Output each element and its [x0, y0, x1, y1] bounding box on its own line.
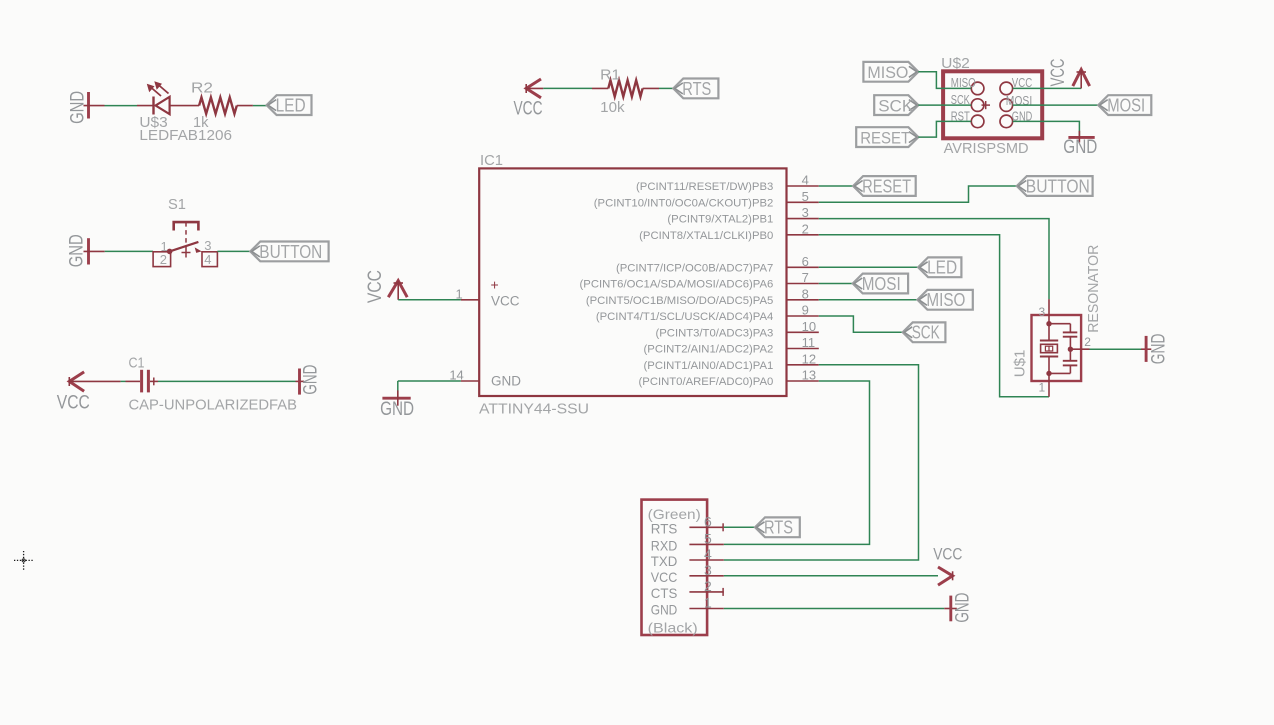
wire C1 to GND	[158, 380, 296, 382]
svg-text:GND: GND	[67, 91, 88, 124]
switch S1 actuator bracket	[174, 222, 199, 230]
wire resonator pin 2 to GND	[1090, 348, 1142, 350]
wire VCC to C1	[121, 380, 126, 382]
net flag RESET	[853, 176, 916, 196]
junction dot resonator top	[1046, 321, 1051, 326]
svg-text:TXD: TXD	[651, 553, 678, 569]
LED U$3 symbol	[147, 81, 170, 114]
junction dot resonator bottom	[1046, 371, 1051, 376]
svg-text:U$1: U$1	[1011, 350, 1028, 378]
svg-text:(PCINT4/T1/SCL/USCK/ADC4)PA4: (PCINT4/T1/SCL/USCK/ADC4)PA4	[596, 311, 773, 323]
ISP pad SCK	[971, 99, 984, 112]
svg-text:SCK: SCK	[878, 96, 914, 115]
svg-text:3: 3	[1039, 305, 1046, 319]
FTDI pin 2 (CTS) lead	[689, 591, 723, 593]
svg-text:3: 3	[704, 562, 712, 578]
net flag MOSI (ISP)	[1098, 95, 1151, 115]
switch S1 actuator lever	[170, 242, 199, 252]
switch S1 plunger cross	[185, 248, 187, 258]
resistor R2	[199, 97, 237, 113]
net flag RESET (ISP)	[856, 127, 918, 147]
svg-text:(PCINT6/OC1A/SDA/MOSI/ADC6)PA6: (PCINT6/OC1A/SDA/MOSI/ADC6)PA6	[580, 279, 774, 291]
pin of GND symbol	[84, 105, 105, 107]
IC1 pin 10 lead	[787, 331, 819, 333]
net flag SCK (IC side)	[903, 322, 946, 342]
IC1 pin 7 lead	[787, 283, 819, 285]
svg-text:GND: GND	[1147, 334, 1169, 365]
net flag BUTTON (IC side)	[1017, 176, 1093, 196]
wire pin 14 to GND	[398, 380, 461, 382]
wire SCK flag to pad	[918, 104, 971, 106]
power VCC (C1 branch)	[57, 372, 121, 413]
svg-text:CTS: CTS	[651, 585, 678, 601]
net flag SCK (ISP)	[874, 95, 918, 115]
net flag MISO (IC side)	[917, 290, 972, 310]
net flag RTS (pullup)	[673, 79, 718, 99]
svg-text:RXD: RXD	[651, 538, 678, 554]
IC1 pin 12 lead	[787, 364, 819, 366]
FTDI RTS pin cross	[722, 523, 724, 531]
net flag LED (IC side)	[918, 257, 961, 277]
wire R1 to RTS flag	[643, 87, 659, 89]
resonator pin 3 stub	[1048, 299, 1050, 324]
svg-text:(PCINT10/INT0/OC0A/CKOUT)PB2: (PCINT10/INT0/OC0A/CKOUT)PB2	[594, 197, 774, 209]
svg-text:VCC: VCC	[1048, 58, 1069, 86]
capacitor C1 left pin	[126, 380, 141, 382]
wire MISO flag to pad	[918, 72, 971, 89]
svg-text:LED: LED	[276, 96, 306, 116]
FTDI CTS pin cross	[722, 588, 724, 596]
ground GND (LED branch)	[67, 91, 89, 124]
svg-text:4: 4	[802, 173, 809, 188]
switch S1 contact dot left	[167, 249, 173, 255]
svg-text:MISO: MISO	[926, 290, 965, 310]
svg-text:(PCINT8/XTAL1/CLKI)PB0: (PCINT8/XTAL1/CLKI)PB0	[639, 230, 773, 242]
IC1 pin 1 lead (VCC)	[461, 299, 479, 301]
wire VCC pad to VCC symbol	[1013, 87, 1081, 89]
svg-text:(Black): (Black)	[648, 620, 698, 636]
svg-text:(PCINT2/AIN1/ADC2)PA2: (PCINT2/AIN1/ADC2)PA2	[644, 344, 774, 356]
FTDI pin 3 (VCC) lead	[689, 575, 723, 577]
svg-text:GND: GND	[1063, 137, 1097, 158]
wire RESET flag to pad	[918, 121, 971, 137]
svg-text:C1: C1	[129, 354, 145, 371]
wire GND pad to GND symbol	[1013, 121, 1080, 135]
svg-text:RTS: RTS	[682, 79, 711, 99]
svg-text:10: 10	[802, 319, 816, 334]
svg-text:4: 4	[704, 546, 712, 562]
ground GND (ISP)	[1063, 131, 1097, 158]
svg-text:R1: R1	[600, 66, 620, 83]
svg-text:AVRISPSMD: AVRISPSMD	[944, 140, 1029, 157]
FTDI pin 4 (TXD) lead	[689, 559, 723, 561]
svg-text:VCC: VCC	[364, 270, 386, 303]
resonator pin 2 stub	[1070, 348, 1089, 350]
IC1 pin 6 lead	[787, 266, 819, 268]
FTDI connector J1 body	[642, 500, 708, 635]
svg-text:LED: LED	[927, 258, 957, 278]
wire pin 4 to RESET flag	[819, 185, 853, 187]
wire pin 3 to resonator pin 3	[819, 219, 1049, 300]
wire S1 to BUTTON flag	[217, 250, 250, 252]
svg-text:S1: S1	[168, 196, 186, 213]
svg-text:2: 2	[802, 221, 809, 236]
power VCC (FTDI)	[933, 544, 962, 585]
net flag LED	[267, 95, 312, 115]
switch S1 pin 1-2 contact box	[153, 252, 171, 267]
svg-text:BUTTON: BUTTON	[1026, 176, 1090, 196]
switch S1 plunger dashed line	[185, 222, 187, 247]
svg-text:8: 8	[802, 286, 809, 301]
svg-text:RESET: RESET	[860, 128, 910, 147]
svg-text:ATTINY44-SSU: ATTINY44-SSU	[479, 401, 589, 418]
ISP header U$2 body	[943, 71, 1042, 138]
svg-text:(PCINT7/ICP/OC0B/ADC7)PA7: (PCINT7/ICP/OC0B/ADC7)PA7	[616, 262, 773, 274]
svg-text:GND: GND	[380, 399, 414, 420]
IC1 pin 3 lead	[787, 218, 819, 220]
resonator U$1 body	[1032, 315, 1082, 381]
net flag BUTTON	[250, 242, 328, 262]
ground GND (resonator)	[1141, 334, 1169, 365]
svg-text:(PCINT9/XTAL2)PB1: (PCINT9/XTAL2)PB1	[667, 214, 773, 226]
wire VCC to R1	[543, 87, 592, 89]
wire VCC pin to VCC symbol	[724, 575, 938, 577]
wire RTS pin to RTS flag	[724, 526, 755, 528]
ISP pin cross SCK	[982, 104, 991, 106]
svg-text:GND: GND	[491, 374, 521, 389]
sheet origin cross marker	[14, 551, 33, 570]
svg-text:RTS: RTS	[764, 518, 793, 538]
svg-text:VCC: VCC	[491, 293, 520, 308]
svg-text:CAP-UNPOLARIZEDFAB: CAP-UNPOLARIZEDFAB	[129, 396, 298, 413]
junction dot resonator pin2	[1068, 347, 1073, 352]
wire pin 9 to SCK flag	[819, 316, 903, 332]
IC U1 ATTINY44-SSU body	[479, 168, 786, 396]
svg-text:13: 13	[802, 368, 816, 383]
IC1 pin 8 lead	[787, 299, 819, 301]
svg-text:2: 2	[1084, 335, 1091, 349]
wire GND pin to GND symbol	[724, 608, 945, 610]
resonator capacitor branch	[1049, 324, 1077, 374]
wire pin 8 to MISO flag	[819, 299, 918, 301]
resistor R1 left pin	[592, 87, 608, 89]
svg-text:11: 11	[802, 335, 816, 350]
net flag RTS (FTDI)	[755, 517, 800, 537]
wire GND to switch S1	[105, 250, 153, 252]
svg-text:SCK: SCK	[912, 323, 940, 343]
wire pin 5 to BUTTON flag	[819, 186, 1017, 202]
wire pin 13 to FTDI RXD	[724, 381, 870, 544]
pin of GND symbol	[84, 250, 105, 252]
svg-text:(PCINT11/RESET/DW)PB3: (PCINT11/RESET/DW)PB3	[636, 181, 773, 193]
svg-text:R2: R2	[191, 80, 213, 97]
ground GND (button branch)	[66, 234, 89, 267]
svg-text:2: 2	[160, 252, 167, 267]
net flag MOSI (IC side)	[853, 274, 908, 294]
wire pin 2 to resonator pin 1	[819, 235, 1049, 397]
svg-text:IC1: IC1	[480, 152, 503, 169]
ground GND at IC1 pin 14	[380, 390, 414, 420]
IC1 pin 14 lead (GND)	[461, 380, 479, 382]
ISP pad GND	[1000, 115, 1013, 128]
IC1 pin 11 lead	[787, 348, 819, 350]
wire pin 7 to MOSI flag	[819, 283, 853, 285]
svg-text:GND: GND	[651, 602, 678, 618]
svg-text:GND: GND	[952, 593, 973, 623]
IC1 pin 9 lead	[787, 315, 819, 317]
switch S1 pin 3-4 contact box	[202, 252, 217, 267]
FTDI pin 1 (GND) lead	[689, 608, 723, 610]
svg-text:5: 5	[802, 189, 809, 204]
svg-text:VCC: VCC	[933, 544, 962, 563]
wire MOSI pad to MOSI flag	[1013, 104, 1098, 106]
ground GND (FTDI)	[944, 593, 973, 623]
svg-text:MOSI: MOSI	[1107, 96, 1145, 116]
resonator pin 1 stub	[1048, 373, 1050, 396]
LED U$3 cathode pin	[137, 105, 154, 107]
IC1 pin 13 lead	[787, 380, 819, 382]
svg-text:5: 5	[704, 531, 712, 547]
IC1 pin 2 lead	[787, 234, 819, 236]
FTDI pin 5 (RXD) lead	[689, 543, 723, 545]
svg-text:3: 3	[204, 238, 211, 253]
ISP pad VCC	[1000, 82, 1013, 95]
svg-text:BUTTON: BUTTON	[259, 242, 322, 262]
svg-text:RESET: RESET	[862, 176, 911, 196]
svg-text:(PCINT1/AIN0/ADC1)PA1: (PCINT1/AIN0/ADC1)PA1	[644, 360, 774, 372]
svg-text:2: 2	[704, 578, 712, 594]
svg-text:MOSI: MOSI	[862, 274, 901, 294]
power VCC (R1 branch)	[514, 79, 544, 120]
svg-text:(PCINT5/OC1B/MISO/DO/ADC5)PA5: (PCINT5/OC1B/MISO/DO/ADC5)PA5	[586, 295, 773, 307]
svg-text:LEDFAB1206: LEDFAB1206	[139, 127, 232, 144]
svg-text:RTS: RTS	[651, 521, 678, 537]
svg-text:9: 9	[802, 303, 809, 318]
svg-text:U$2: U$2	[941, 55, 970, 72]
resonator crystal element	[1040, 324, 1058, 374]
svg-text:VCC: VCC	[651, 569, 678, 585]
svg-text:(PCINT3/T0/ADC3)PA3: (PCINT3/T0/ADC3)PA3	[655, 327, 773, 339]
wire pin 12 to FTDI TXD	[724, 365, 919, 560]
wire LED anode to resistor R2	[170, 105, 200, 107]
resistor R1	[608, 80, 642, 96]
power VCC at IC1 pin 1	[364, 270, 407, 303]
ISP pad MISO	[971, 82, 984, 95]
switch S1 contact arrow right	[195, 247, 202, 253]
ISP pad MOSI	[1000, 99, 1013, 112]
ISP pad RST	[971, 115, 984, 128]
svg-text:6: 6	[802, 254, 809, 269]
svg-text:GND: GND	[300, 365, 321, 395]
wire GND to LED cathode	[105, 105, 138, 107]
svg-text:VCC: VCC	[57, 392, 90, 413]
FTDI pin 6 (RTS) lead	[689, 526, 723, 528]
svg-text:(PCINT0/AREF/ADC0)PA0: (PCINT0/AREF/ADC0)PA0	[639, 376, 774, 388]
IC1 pin 4 lead	[787, 185, 819, 187]
ground GND (C1 branch)	[296, 365, 321, 395]
wire pin 6 to LED flag	[819, 266, 918, 268]
svg-text:10k: 10k	[600, 99, 625, 116]
svg-text:+: +	[491, 277, 499, 293]
svg-text:7: 7	[802, 270, 809, 285]
capacitor C1	[142, 370, 158, 393]
power VCC (ISP)	[1048, 58, 1090, 88]
svg-text:3: 3	[802, 205, 809, 220]
svg-text:MISO: MISO	[867, 63, 908, 82]
wire VCC to pin 1	[398, 299, 461, 301]
svg-text:12: 12	[802, 351, 816, 366]
IC1 pin 5 lead	[787, 201, 819, 203]
svg-text:RESONATOR: RESONATOR	[1086, 245, 1102, 333]
svg-text:1: 1	[704, 595, 712, 611]
svg-text:6: 6	[704, 514, 712, 530]
svg-text:1: 1	[1039, 381, 1046, 395]
wire R2 to LED flag	[237, 105, 253, 107]
net flag MISO (ISP)	[863, 62, 918, 82]
svg-text:4: 4	[204, 252, 211, 267]
svg-text:VCC: VCC	[514, 99, 543, 120]
